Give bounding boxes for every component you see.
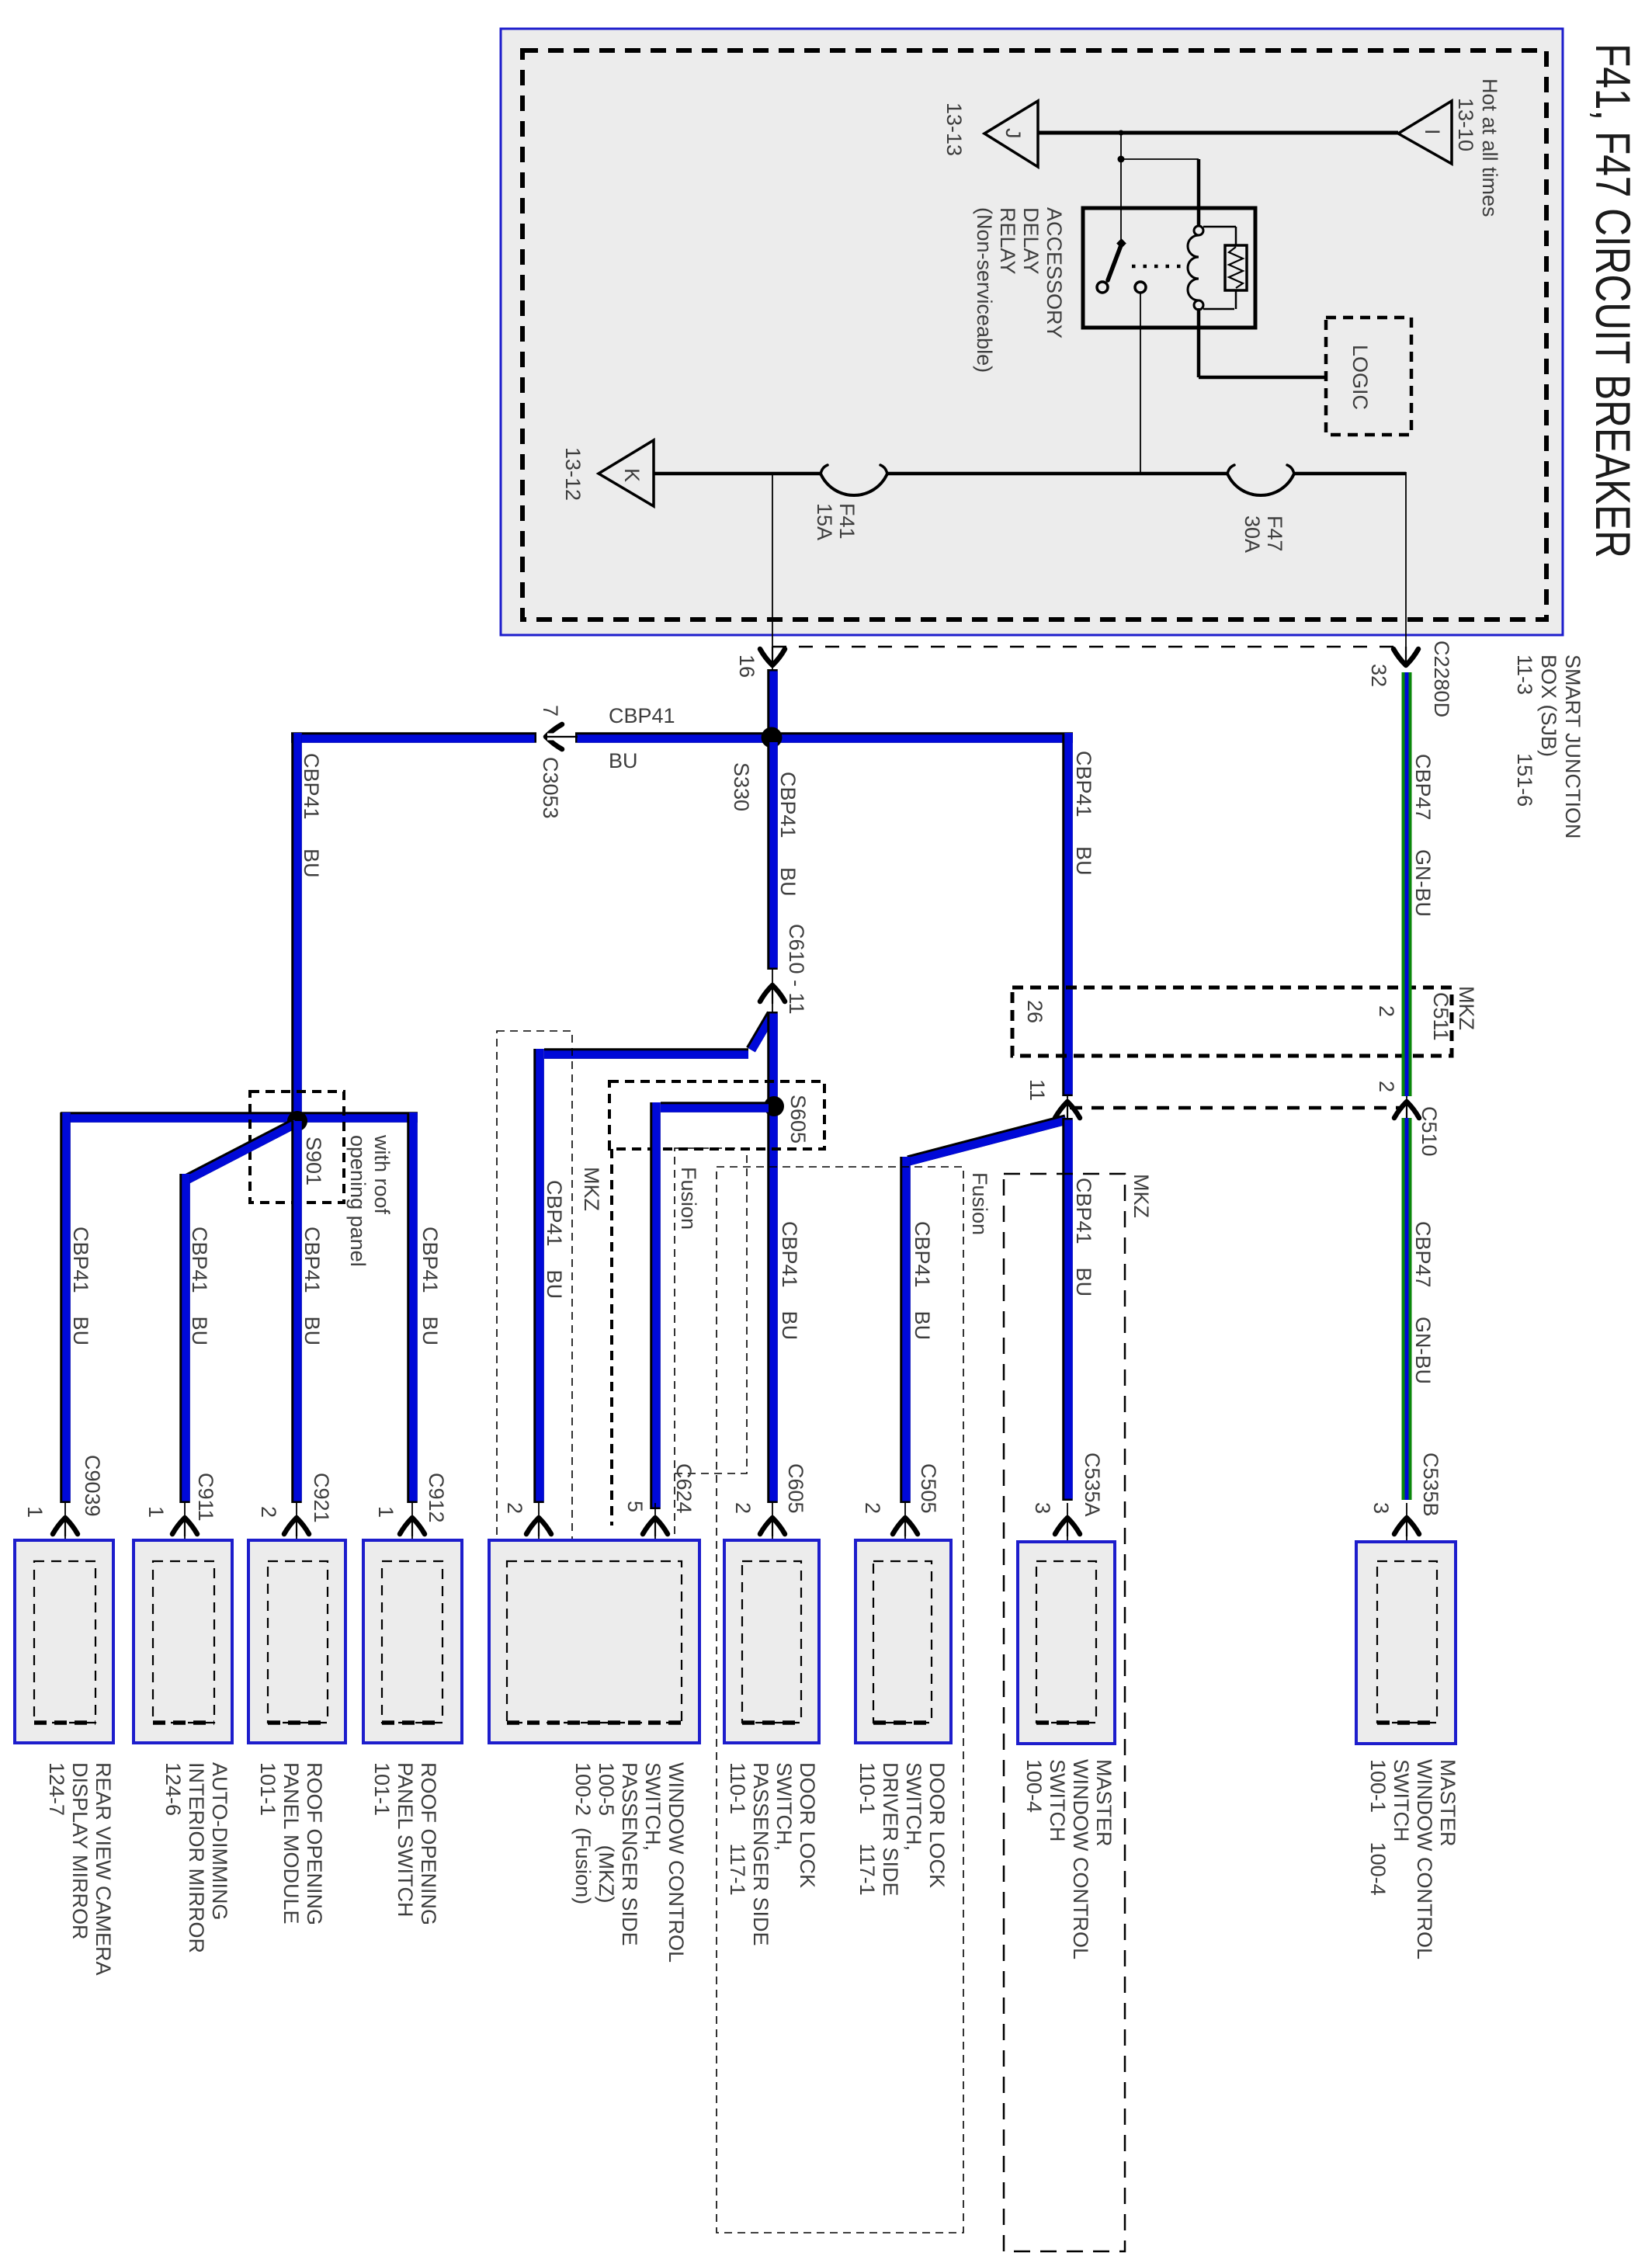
S605 left guide dashed line [610,1149,613,1525]
MASTER WINDOW CONTROL SWITCH B inner dashed connector rect [1377,1561,1437,1723]
svg-text:3: 3 [1369,1502,1393,1514]
svg-text:with roof: with roof [370,1134,394,1215]
wire to C921 [291,1121,302,1503]
svg-text:DELAY: DELAY [1019,207,1043,275]
wire K to F41 [654,472,821,476]
off-page connector triangle K [599,440,654,506]
svg-text:PASSENGER SIDE: PASSENGER SIDE [618,1762,641,1946]
component box DOOR LOCK SWITCH DRIVER [855,1540,951,1743]
wire CBP41 left branch down [291,733,302,1118]
wire CBP41 bus [291,732,536,743]
relay coil L1 [1188,235,1199,300]
S605 dashed box [609,1081,824,1149]
DOOR LOCK SWITCH DRIVER inner dashed connector rect [873,1561,932,1723]
wire CBP47 GN-BU upper [1402,672,1412,1096]
svg-text:CBP41 BU: CBP41 BU [1072,1178,1095,1296]
connector C510 green arrow [1406,1096,1407,1121]
svg-text:11-3 151-6: 11-3 151-6 [1513,654,1536,807]
svg-text:100-2 (Fusion): 100-2 (Fusion) [571,1762,595,1904]
ROOF OPENING PANEL MODULE inner dashed connector rect [268,1561,328,1723]
svg-text:2: 2 [1375,1005,1398,1017]
svg-text:INTERIOR MIRROR: INTERIOR MIRROR [185,1762,208,1953]
svg-text:ROOF OPENING: ROOF OPENING [303,1762,326,1925]
connector C505 [904,1503,906,1561]
svg-text:2: 2 [861,1502,884,1514]
svg-text:CBP41 BU: CBP41 BU [418,1227,442,1345]
connector C624 [654,1503,656,1561]
connector C911 [184,1503,186,1561]
off-page connector triangle J [984,101,1038,167]
wire S605 branch to C624 pin 5 [661,1102,769,1112]
svg-text:CBP47 GN-BU: CBP47 GN-BU [1411,1221,1435,1384]
svg-text:ACCESSORY: ACCESSORY [1043,207,1066,338]
svg-text:DRIVER SIDE: DRIVER SIDE [879,1762,902,1897]
junction tick [1119,130,1124,136]
relay coil to LOGIC wire [1197,308,1201,377]
svg-text:26: 26 [1023,1000,1046,1023]
svg-text:110-1 117-1: 110-1 117-1 [726,1762,749,1896]
svg-text:SMART JUNCTION: SMART JUNCTION [1561,654,1584,839]
wire CBP41 right branch [1062,733,1073,1096]
wire to C911 (diagonal from S901) [186,1123,296,1179]
svg-text:32: 32 [1367,664,1390,687]
component box WINDOW CONTROL SWITCH PASSENGER [489,1540,699,1743]
svg-text:MKZ: MKZ [1455,986,1478,1030]
SJB connector dashed line [772,646,1405,648]
connector C510 blue arrow [1067,1096,1068,1121]
svg-text:SWITCH,: SWITCH, [772,1762,796,1851]
component box REAR VIEW CAMERA DISPLAY MIRROR [15,1540,113,1743]
connector C610-11 [772,970,773,1012]
connector C9039 [64,1503,66,1561]
svg-text:SWITCH,: SWITCH, [641,1762,665,1851]
svg-text:K: K [620,468,644,482]
svg-text:BOX (SJB): BOX (SJB) [1537,654,1560,757]
svg-text:C912: C912 [425,1473,448,1523]
svg-text:PANEL MODULE: PANEL MODULE [279,1762,303,1925]
svg-text:2: 2 [731,1502,755,1514]
DOOR LOCK SWITCH PASSENGER inner dashed connector rect [742,1561,801,1723]
svg-text:CBP41 BU: CBP41 BU [911,1221,934,1340]
connector C535B [1406,1503,1407,1561]
svg-text:16: 16 [735,654,758,678]
ROOF OPENING PANEL SWITCH inner dashed connector rect [382,1561,442,1723]
svg-text:PANEL SWITCH: PANEL SWITCH [394,1762,417,1918]
relay switch arm [1108,245,1121,280]
svg-text:F41, F47 CIRCUIT BREAKER: F41, F47 CIRCUIT BREAKER [1585,43,1640,558]
svg-text:2: 2 [1375,1081,1398,1092]
relay coil terminal top [1194,226,1203,235]
svg-text:MASTER: MASTER [1436,1759,1459,1847]
relay contact B [1135,282,1146,293]
svg-text:AUTO-DIMMING: AUTO-DIMMING [208,1762,231,1921]
svg-text:WINDOW CONTROL: WINDOW CONTROL [1413,1759,1436,1959]
svg-text:C921: C921 [310,1473,333,1523]
svg-text:1: 1 [23,1506,47,1518]
connector C535A [1067,1503,1068,1561]
svg-text:J: J [1001,128,1025,139]
connector C3053 arrow [546,724,562,749]
svg-text:13-12: 13-12 [561,447,585,501]
svg-text:C3053: C3053 [539,757,562,819]
svg-text:5: 5 [623,1501,647,1512]
svg-text:13-10: 13-10 [1454,98,1477,151]
svg-text:PASSENGER SIDE: PASSENGER SIDE [749,1762,772,1946]
svg-text:110-1 117-1: 110-1 117-1 [855,1762,879,1896]
svg-text:C624: C624 [672,1463,696,1514]
svg-text:CBP41 BU: CBP41 BU [188,1227,211,1345]
svg-text:opening panel: opening panel [346,1135,370,1267]
svg-text:13-13: 13-13 [942,102,966,156]
svg-text:C2280D: C2280D [1430,640,1453,717]
svg-text:CBP41 BU: CBP41 BU [300,753,323,878]
SJB outer box (blue, gray fill) [501,29,1563,635]
svg-text:I: I [1421,129,1444,135]
connector C605 [772,1503,773,1561]
svg-text:DISPLAY MIRROR: DISPLAY MIRROR [68,1762,92,1940]
svg-text:CBP41 BU: CBP41 BU [543,1180,566,1299]
relay actuation dotted link [1132,265,1182,269]
svg-text:124-6: 124-6 [161,1762,185,1816]
svg-text:Fusion: Fusion [968,1172,991,1235]
svg-text:C505: C505 [917,1463,940,1514]
wire from relay contact B to fuse bus [1140,293,1141,474]
MKZ variant box (master window switch) [1004,1174,1125,2251]
svg-text:(Non-serviceable): (Non-serviceable) [973,207,996,373]
svg-text:F41: F41 [835,503,859,540]
LOGIC box [1326,318,1411,435]
svg-text:DOOR LOCK: DOOR LOCK [925,1762,949,1888]
connector C510 dashed line [1070,1106,1401,1110]
svg-text:7: 7 [539,705,562,717]
component box ROOF OPENING PANEL SWITCH [363,1540,462,1743]
svg-text:LOGIC: LOGIC [1348,345,1372,410]
wire from I to J [1038,131,1398,135]
svg-text:WINDOW CONTROL: WINDOW CONTROL [1069,1759,1092,1959]
svg-text:Fusion: Fusion [677,1167,700,1230]
svg-text:CBP47 GN-BU: CBP47 GN-BU [1411,754,1435,917]
svg-text:CBP41 BU: CBP41 BU [776,772,800,897]
svg-text:MASTER: MASTER [1092,1759,1116,1847]
relay resistor R1 [1225,245,1247,290]
svg-text:11: 11 [1026,1079,1049,1101]
svg-text:3: 3 [1031,1502,1054,1514]
wire F41 junction down to pin 16 [772,474,773,669]
svg-text:SWITCH,: SWITCH, [902,1762,925,1851]
svg-text:CBP41 BU: CBP41 BU [778,1221,801,1340]
svg-text:1: 1 [374,1506,397,1518]
MKZ variant box (C624 pin 2) [497,1031,572,1623]
wire F47 to C2280D [1294,472,1406,476]
svg-text:C911: C911 [194,1473,217,1522]
svg-text:30A: 30A [1241,515,1264,553]
Fusion variant box (C624 pin 5) [675,1148,747,1473]
component box AUTO-DIMMING INTERIOR MIRROR [134,1540,232,1743]
svg-text:C511: C511 [1429,992,1452,1041]
fuse F47 [1227,474,1294,495]
REAR VIEW CAMERA DISPLAY MIRROR inner dashed connector rect [34,1561,95,1723]
svg-text:BU: BU [609,749,638,772]
svg-text:S605: S605 [786,1095,810,1144]
svg-text:DOOR LOCK: DOOR LOCK [796,1762,819,1888]
svg-text:SWITCH: SWITCH [1046,1759,1069,1841]
wire CBP41 center down [767,742,778,970]
svg-text:CBP41: CBP41 [609,704,675,727]
svg-text:MKZ: MKZ [580,1167,603,1211]
svg-text:ROOF OPENING: ROOF OPENING [417,1762,440,1925]
wire: branch from bus to relay [1120,133,1122,159]
relay coil terminal bottom [1194,300,1203,310]
svg-text:101-1: 101-1 [370,1762,394,1816]
connector C912 [411,1503,413,1561]
splice S901 [287,1111,307,1131]
accessory delay relay U1 box [1083,208,1255,328]
svg-text:100-4: 100-4 [1022,1759,1046,1813]
S901 dashed box [250,1092,344,1203]
SJB inner dashed border [522,50,1546,620]
wire CBP47 GN-BU lower [1402,1118,1412,1500]
wire C610-11 branch to C624 pin 2 [751,1014,772,1050]
connector C2280D arrow [1393,649,1418,665]
svg-text:CBP41 BU: CBP41 BU [300,1227,324,1345]
svg-text:WINDOW CONTROL: WINDOW CONTROL [665,1762,688,1963]
svg-text:C510: C510 [1418,1106,1441,1157]
svg-text:CBP41 BU: CBP41 BU [1072,751,1095,876]
WINDOW CONTROL SWITCH PASSENGER inner dashed connector rect [507,1561,682,1723]
svg-text:SWITCH: SWITCH [1390,1759,1413,1841]
C511 dashed box [1012,987,1452,1056]
MASTER WINDOW CONTROL SWITCH inner dashed connector rect [1036,1561,1096,1723]
svg-text:C535A: C535A [1081,1453,1104,1517]
svg-text:15A: 15A [813,503,836,540]
connector C921 [296,1503,297,1561]
component box ROOF OPENING PANEL MODULE [248,1540,345,1743]
wire to C9039 [60,1112,71,1503]
svg-text:100-5 (MKZ): 100-5 (MKZ) [595,1762,618,1904]
svg-text:2: 2 [257,1506,280,1518]
component box MASTER WINDOW CONTROL SWITCH B [1356,1542,1456,1744]
svg-text:C9039: C9039 [81,1455,104,1517]
fuse F41 [821,474,887,495]
svg-text:S330: S330 [730,762,753,811]
svg-text:CBP41 BU: CBP41 BU [69,1227,92,1345]
svg-text:Hot at all times: Hot at all times [1478,78,1501,217]
wire F41 to F47 [887,472,1227,476]
svg-text:RELAY: RELAY [996,207,1019,275]
AUTO-DIMMING INTERIOR MIRROR inner dashed connector rect [153,1561,214,1723]
splice S605 [764,1096,784,1116]
connector C624 pin 2 [538,1503,540,1561]
component box DOOR LOCK SWITCH PASSENGER [724,1540,819,1743]
svg-text:S901: S901 [302,1137,325,1185]
component box MASTER WINDOW CONTROL SWITCH [1018,1542,1115,1744]
off-page connector triangle I (hot feed) [1398,101,1452,164]
relay contact A [1097,282,1108,293]
svg-text:C610 - 11: C610 - 11 [785,924,808,1015]
svg-text:101-1: 101-1 [256,1762,279,1816]
svg-text:1: 1 [144,1506,168,1518]
svg-text:C535B: C535B [1419,1453,1442,1517]
relay resistor R1 branch [1203,226,1236,228]
splice S330 [762,727,783,748]
wire CBP41 stub from pin 16 [767,669,778,738]
svg-text:F47: F47 [1263,515,1286,552]
svg-text:MKZ: MKZ [1130,1174,1153,1218]
wire below C610-11 to C605 [767,1012,778,1503]
wire S901 bus [61,1112,418,1123]
Fusion variant box (door lock switches) [717,1167,963,2233]
wire: switch feed [1120,159,1122,243]
svg-text:REAR VIEW CAMERA: REAR VIEW CAMERA [92,1762,115,1976]
svg-text:2: 2 [503,1502,526,1514]
connector pin 16 arrow [760,649,785,665]
svg-text:100-1 100-4: 100-1 100-4 [1366,1759,1390,1896]
wire to C912 [407,1112,418,1503]
svg-text:C605: C605 [784,1463,807,1514]
wire C510 diagonal to C505 [908,1119,1066,1161]
wire below C510 to C535A [1062,1118,1073,1501]
svg-text:124-7: 124-7 [45,1762,68,1816]
